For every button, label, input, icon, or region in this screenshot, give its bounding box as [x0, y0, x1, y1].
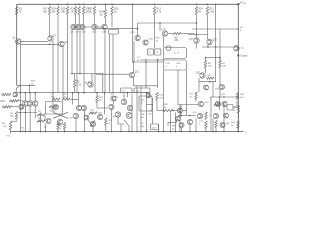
wire x134 seg [133, 41, 135, 62]
resistor R18 39k [52, 7, 60, 15]
wire x157.5 drop [157, 59, 159, 89]
resistor R18v [199, 112, 207, 125]
resistor R10 label [31, 81, 36, 86]
wire left border corner [17, 84, 36, 86]
wire x132.5 long drop [132, 4, 134, 62]
wire x30.1 low [29, 106, 31, 131]
transistor Qin3 [19, 104, 24, 109]
wire x220 upper [219, 29, 221, 62]
node y81.7 x209.8 [209, 81, 211, 83]
node bus x20.3 [20, 92, 22, 94]
resistor R13 4.7k [153, 7, 162, 15]
wire R7 tail [219, 68, 221, 97]
node y60 x157.5 [157, 59, 159, 61]
transistor Q41 [209, 113, 219, 118]
wire q17 drop [196, 43, 198, 48]
transistor Q30 [113, 112, 121, 118]
wire x129 low [128, 126, 130, 132]
wire x175.5 low [175, 113, 177, 132]
resistor R19v [205, 121, 207, 129]
resistor Rin3 [5, 106, 20, 108]
node bus x30.1 [29, 92, 31, 94]
terminal Output [240, 55, 248, 58]
svg-text:C2B: C2B [176, 63, 181, 65]
wire x109.5 seg [109, 34, 111, 93]
wire x25.4 drop [24, 93, 26, 101]
wire R9-Q17 [181, 33, 195, 35]
wire x30.1 drop [29, 93, 31, 101]
wire x141 low [140, 86, 142, 132]
node V+ corner dot [237, 3, 239, 5]
wire diag arrows [88, 120, 95, 127]
transistor Q20 [207, 39, 218, 44]
transistor Q15 [129, 72, 139, 78]
resistor R3 50k [10, 112, 18, 120]
transistor Q12 mirror [102, 24, 107, 33]
resistor R13v [96, 96, 104, 103]
wire q9 drop [76, 30, 78, 93]
wire x40.5 drop [40, 113, 42, 132]
resistor R17 39k [43, 7, 51, 15]
resistor R12 1.8k [206, 7, 215, 15]
wire x178 upper [177, 70, 179, 105]
svg-text:Q20: Q20 [213, 40, 218, 42]
node y23 x196.4 [196, 22, 198, 24]
wire y74.2 bus [96, 73, 129, 75]
wire y44.3 [20, 43, 59, 45]
wire x146 drop [145, 62, 147, 88]
svg-text:Q13: Q13 [85, 83, 90, 85]
resistor R24 low [100, 4, 107, 17]
resistor R12h [89, 110, 97, 115]
wire x113 seg [112, 34, 114, 93]
wire R17v low [195, 100, 197, 102]
wire left bus y85.3 dot [29, 85, 31, 93]
node bus x127.5 [127, 92, 129, 94]
transistor Q31 [126, 113, 132, 119]
svg-text:4.7k: 4.7k [157, 11, 162, 14]
transistor Q45 [177, 108, 186, 113]
node y112.5 x20.3 [20, 112, 22, 114]
node rail x154.5 [154, 4, 156, 6]
label C2B [141, 114, 146, 119]
wire y104.5 seg [147, 104, 154, 106]
resistor R6 150 [204, 58, 212, 68]
resistor R21 1k [78, 7, 80, 15]
wire x45 seg [44, 115, 46, 121]
transistor Q2a [23, 101, 28, 106]
transistor Q36 [193, 112, 203, 119]
transistor Q19 [69, 113, 79, 119]
transistor Q40 [222, 101, 227, 106]
wire R21 drop [78, 15, 80, 25]
wire x163.5 drop [163, 70, 165, 113]
wire x168 seg [167, 123, 169, 127]
resistor R23v [233, 106, 240, 119]
wire R14 drop [195, 15, 197, 38]
transistor Q37 [187, 119, 192, 124]
wire x108 low [105, 126, 107, 132]
svg-text:7k: 7k [141, 102, 143, 104]
component group box A [163, 46, 187, 60]
transistor Q44 [215, 85, 225, 91]
wire Q13 up [91, 74, 93, 83]
terminal V+ [238, 2, 246, 5]
node x238.3 y29 [238, 28, 240, 30]
wire x158.5 low [158, 124, 160, 132]
svg-text:30k: 30k [141, 117, 144, 119]
transistor Q29 [127, 105, 132, 110]
node rail x75.6 [75, 4, 77, 6]
wire x35.2 low [34, 106, 36, 118]
wire x78.5 drop [78, 93, 80, 106]
node rail x94.5 [94, 4, 96, 6]
transistor Q7c [81, 105, 86, 110]
svg-text:Trim: Trim [6, 135, 10, 138]
wire y112.5 [18, 112, 37, 114]
wire x146.5 low [146, 93, 148, 132]
node rail x196.4 [196, 4, 198, 6]
node x133.5 y62 [133, 61, 135, 63]
svg-text:V-: V- [245, 133, 247, 135]
resistor R22v [215, 121, 217, 132]
node y115.5 x181 [180, 115, 182, 117]
wire x76 low [75, 119, 77, 132]
wire y23 [138, 22, 197, 24]
node bus x72.5 [72, 92, 74, 94]
label R11 [115, 97, 120, 102]
wire x25.4 low [24, 106, 26, 131]
transistor Q23 [84, 115, 89, 120]
wire R13 up [96, 92, 98, 96]
wire x20.3 drop2 [19, 93, 21, 132]
wire x224 low [223, 103, 225, 132]
node y47 x215.7 [215, 46, 217, 48]
wire x93 low [92, 127, 94, 132]
wire R17v up [195, 91, 197, 94]
wire R23 drop [94, 15, 96, 25]
wire x199 drop [198, 78, 200, 92]
wire R20 drop [75, 15, 77, 25]
component box small [227, 101, 237, 110]
svg-text:C5: C5 [122, 91, 124, 93]
transistor Q1 [13, 38, 21, 45]
node bottom rail dots [20, 131, 239, 133]
svg-text:1k: 1k [59, 128, 61, 130]
svg-text:Q15: Q15 [135, 72, 140, 74]
transistor Q14 [131, 32, 141, 41]
wire x196 low [195, 119, 197, 132]
wire R13 drop [155, 15, 161, 49]
component box low1 [139, 96, 152, 111]
label R bottomleft [22, 128, 26, 133]
node bus x146.5 [146, 92, 148, 94]
wire x104.5 low [104, 92, 106, 115]
resistor R9 25k [173, 32, 181, 42]
component box D1 [46, 102, 63, 115]
wire R22 drop [83, 15, 85, 25]
wire q34 low [168, 120, 177, 123]
wire y34.5 [188, 34, 207, 36]
transistor Q24 [97, 113, 102, 120]
resistor R15v [156, 93, 164, 101]
wire y28.6 seg [97, 28, 139, 30]
node rail x112 [111, 4, 113, 6]
box D1 labels [51, 94, 55, 99]
resistor R21h small [214, 103, 220, 105]
wire x215.7 seg2 [215, 47, 217, 82]
wire Q6 drop [62, 47, 64, 100]
node rail x79.2 [78, 4, 80, 6]
transistor Q6 [59, 41, 68, 46]
transistor Q7a [51, 105, 59, 111]
resistor R17v [190, 92, 198, 100]
wire x45.5 drop [45, 124, 47, 132]
wire x213 low [212, 119, 214, 132]
wire R4 tail [10, 130, 12, 132]
transistor Q10 mirror [80, 24, 87, 33]
node rail x215.7 [215, 4, 217, 6]
resistor R26 label [164, 104, 169, 109]
wire q20 drop [207, 45, 209, 47]
transistor Q2c [33, 101, 38, 106]
wire x132 low [131, 94, 133, 132]
resistor R20v 500 [236, 93, 244, 100]
wire x219.5 drop [219, 97, 221, 110]
wire x180 low [179, 105, 181, 132]
transistor Q43 [204, 85, 209, 90]
wire Q15 drop [133, 78, 135, 86]
transistor Q21 [196, 73, 205, 79]
wire y115.5 [178, 115, 196, 117]
resistor R26 horizontal [157, 109, 177, 111]
svg-text:Q21: Q21 [196, 73, 201, 75]
wire x181 low [181, 128, 183, 132]
transistor Q33 [146, 93, 151, 98]
wire x137 low [136, 86, 138, 132]
wire y108 seg [97, 107, 108, 109]
wire q11 drop [94, 30, 96, 93]
svg-text:NIN: NIN [0, 100, 5, 103]
resistor R14v [105, 118, 113, 126]
wire y47 bus [202, 46, 238, 48]
node y97 x219.5 [219, 96, 221, 98]
wire x186.7 drop [186, 70, 188, 116]
resistor R5h [37, 111, 45, 116]
wire x181 drop [180, 105, 182, 116]
node rail x67.5 [67, 4, 69, 6]
terminal IN1 circle [2, 94, 4, 96]
node x146 y62 [145, 61, 147, 63]
transistor Q2b [27, 101, 32, 106]
wire R13 low [96, 103, 98, 109]
wire x127.5 seg [127, 93, 129, 97]
cross wires X [53, 112, 68, 118]
transistor Qin1 [13, 85, 20, 97]
resistor R6h [37, 118, 45, 123]
component box low4 [151, 124, 159, 130]
node y60 x146 [145, 59, 147, 61]
node output dot [237, 54, 239, 56]
node y97 x224 [223, 96, 225, 98]
node rail x207.4 [207, 4, 209, 6]
wire diag q30 [118, 117, 129, 126]
wire x215.7 drop [215, 4, 217, 47]
transistor Q7b [76, 105, 81, 110]
wire x213 drop [212, 82, 214, 97]
wire y29 to border [192, 28, 238, 30]
wire R19 drop [67, 15, 69, 100]
node y34.5 x196.4 [196, 34, 198, 36]
svg-text:30k: 30k [149, 113, 152, 115]
wire x152.5 seg [152, 98, 154, 124]
wire R20v up [237, 92, 239, 94]
wire V- bottom rail [11, 131, 244, 133]
label R30 [172, 126, 177, 131]
node y73.5 x79 [79, 73, 81, 75]
resistor R12v [63, 123, 65, 132]
transistor Q13 [85, 82, 94, 87]
node y115.5 x190 [189, 115, 191, 117]
resistor R24v [231, 121, 239, 129]
wire y81.7 [199, 81, 216, 83]
wire y104.5 [178, 104, 199, 106]
resistor R14 4k [195, 7, 203, 15]
wire y60 left [140, 59, 163, 61]
svg-text:Q17: Q17 [189, 39, 194, 41]
component box mid2 [134, 88, 150, 93]
wire y57.5 pair top [205, 57, 221, 59]
wire x20.4 drop [19, 44, 21, 92]
resistor R7 330 [219, 58, 227, 68]
wire R15 low2 [156, 100, 158, 111]
transistor Q3 [48, 36, 56, 42]
wire x190 low [189, 125, 191, 132]
node rail x58 [57, 4, 59, 6]
node rail x83.6 [83, 4, 85, 6]
terminal IN2 circle [10, 100, 12, 102]
wire R24 drop [104, 18, 106, 25]
resistor R23 39k [88, 7, 96, 15]
wire main bus y92.7 [19, 92, 150, 94]
component box mid1 [121, 88, 133, 93]
svg-text:R2 50: R2 50 [50, 111, 56, 113]
svg-text:Output: Output [240, 55, 248, 58]
wire x72.5 drop [72, 93, 74, 105]
label R9b [64, 94, 68, 99]
transistor Q35 [198, 101, 209, 106]
wire R5 tail [74, 74, 76, 93]
wire x211 seg [210, 97, 212, 132]
transistor Q16 [161, 29, 168, 48]
svg-text:1.8k: 1.8k [209, 11, 214, 14]
wire q12 drop [104, 30, 106, 93]
svg-text:C2B: C2B [149, 111, 154, 113]
transistor Q14b [143, 39, 154, 46]
resistor R1 [16, 7, 23, 15]
wire x53 drop [52, 99, 54, 112]
wire x102.8 seg [102, 74, 104, 93]
node y112.5 x25.4 [25, 112, 27, 114]
wire R16 drop [111, 15, 113, 28]
transistor Q42 [220, 123, 230, 128]
wire right border [237, 4, 239, 131]
wire y62 [133, 61, 164, 63]
node rail x132.5 [132, 4, 134, 6]
component box C8 [155, 49, 161, 55]
node y47 x208 [207, 46, 209, 48]
node bus x78.5 [78, 92, 80, 94]
resistor R22 1k [82, 7, 90, 15]
transistor Q22 [57, 119, 62, 124]
transistor Qout [234, 46, 245, 51]
svg-text:C7B: C7B [166, 63, 171, 65]
wire q10b drop [83, 30, 85, 93]
transistor Q38 [179, 123, 184, 128]
node rail x105.3 [105, 4, 107, 6]
transistor Q5 [44, 119, 51, 129]
wire R17 drop [49, 15, 51, 37]
terminal IN3 circle [3, 106, 5, 108]
label C7 4k [137, 57, 141, 62]
wire x121 low [120, 124, 122, 132]
wire q10 drop [79, 30, 81, 74]
wire V+ top rail [17, 3, 239, 5]
resistor Rin1 [4, 93, 11, 95]
label C2B2 [141, 123, 145, 128]
wire left border [16, 4, 18, 85]
label bottom c1 [59, 126, 62, 131]
wire y85.8 [134, 85, 158, 87]
wire R24v low [237, 128, 239, 132]
wire y73.5 bus [72, 73, 103, 75]
wire x163.5 low [163, 113, 165, 132]
svg-text:C2B: C2B [141, 114, 146, 116]
wire R12 drop [206, 15, 208, 40]
transistor Q46 [224, 113, 229, 118]
transistor Q34 [176, 116, 181, 121]
svg-text:2k: 2k [108, 123, 110, 125]
resistor R5 1.1k [73, 80, 81, 88]
node y97 x238.3 [238, 96, 240, 98]
transistor Q26 [110, 94, 116, 102]
wire Q3 emitter drop [52, 41, 54, 99]
resistor Rh2 [62, 98, 70, 100]
wire Q16-R9 [168, 33, 174, 35]
terminal NIN label [0, 100, 5, 103]
component group box B [163, 60, 186, 70]
transistor Q25 [90, 121, 95, 126]
wire x160 drop [159, 22, 161, 31]
terminal Trim [6, 132, 11, 138]
wire mirror bus y27 [71, 26, 104, 28]
transistor Q28 [121, 99, 126, 104]
wire x84.5 low [84, 111, 86, 132]
terminal V- bottom right [245, 133, 247, 135]
svg-text:2+ B: 2+ B [174, 52, 179, 54]
wire Rh2 right [70, 98, 79, 100]
resistor R11v [57, 123, 59, 132]
node y44.3 x49.5 [49, 44, 51, 46]
svg-text:C6: C6 [136, 91, 138, 93]
resistor R8 horizontal [207, 75, 215, 80]
wire x170.5 low [170, 113, 172, 132]
wire x137.5 upper [137, 23, 139, 35]
resistor R4 1.5k [2, 122, 12, 130]
node bus x25.4 [25, 92, 27, 94]
component box small mid [109, 30, 119, 35]
wire x124 up [123, 93, 125, 100]
